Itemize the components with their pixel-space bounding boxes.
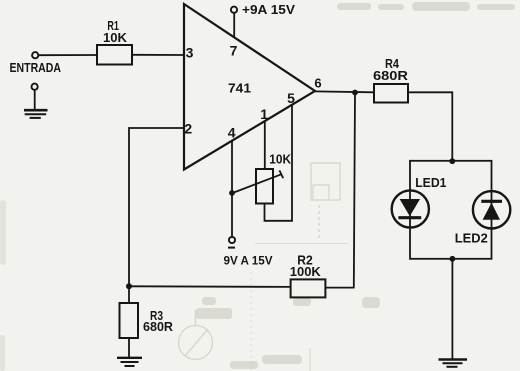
- wire node to R3: [128, 286, 130, 303]
- ground (R3): [117, 358, 142, 366]
- terminal -9V: [229, 237, 235, 243]
- junction LED bottom: [450, 256, 456, 262]
- svg-text:100K: 100K: [290, 265, 321, 279]
- wire input to R1: [38, 54, 97, 56]
- svg-text:+9A 15V: +9A 15V: [242, 2, 295, 17]
- svg-text:3: 3: [186, 45, 194, 61]
- svg-text:1: 1: [260, 106, 268, 122]
- svg-text:6: 6: [314, 76, 321, 91]
- svg-text:680R: 680R: [373, 69, 408, 83]
- svg-text:4: 4: [228, 125, 236, 141]
- svg-text:680R: 680R: [143, 320, 173, 334]
- resistor R1: [97, 45, 132, 65]
- ground (right): [439, 360, 468, 367]
- wire LED branch frame: [410, 161, 492, 259]
- input terminal ENTRADA: [32, 52, 38, 58]
- wire R2 left to node: [129, 285, 291, 288]
- wire pin 4 down: [231, 141, 233, 237]
- terminal +9V: [231, 7, 237, 13]
- wire pin 7 to +V terminal: [233, 13, 235, 38]
- op-amp U1 741: [184, 4, 315, 170]
- wire feedback vertical: [354, 93, 355, 288]
- potentiometer wiper: [233, 174, 282, 193]
- wire LEDs to ground: [451, 259, 453, 359]
- svg-text:7: 7: [230, 43, 238, 59]
- svg-text:10K: 10K: [269, 153, 291, 167]
- wire pin 1 to potentiometer top: [264, 121, 266, 169]
- wire pot bottom to pin 5: [265, 105, 293, 221]
- junction pin4/wiper: [229, 190, 235, 196]
- potentiometer 10K: [256, 169, 273, 204]
- junction output node: [352, 90, 358, 96]
- wire R3 to ground: [128, 338, 130, 357]
- wire R4 to LED node: [408, 92, 452, 161]
- svg-text:2: 2: [184, 121, 192, 137]
- wire R1 to pin 3: [132, 54, 184, 56]
- resistor R4: [374, 84, 408, 103]
- svg-text:LED2: LED2: [455, 230, 488, 245]
- svg-text:5: 5: [287, 90, 295, 106]
- wire R2 right: [325, 287, 354, 289]
- svg-text:9V A 15V: 9V A 15V: [224, 254, 273, 268]
- svg-text:LED1: LED1: [415, 175, 446, 190]
- svg-text:10K: 10K: [103, 31, 127, 45]
- wire pin 2 to feedback node: [129, 128, 184, 287]
- svg-text:ENTRADA: ENTRADA: [10, 60, 62, 75]
- svg-text:741: 741: [228, 81, 251, 96]
- wire output pin 6: [315, 90, 374, 93]
- junction feedback node: [126, 283, 132, 289]
- ground (input): [24, 84, 48, 118]
- LED1: [392, 175, 447, 228]
- junction LED top: [449, 158, 455, 164]
- LED2: [455, 191, 511, 245]
- resistor R3: [120, 303, 139, 338]
- resistor R2: [291, 279, 326, 297]
